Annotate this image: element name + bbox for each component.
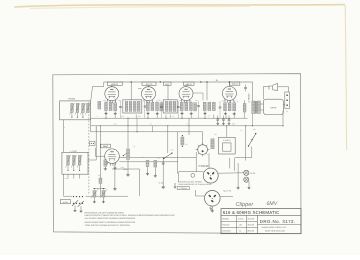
wire pilot 2 return	[248, 182, 250, 187]
oscillator coils	[67, 155, 70, 165]
svg-text:WAIHI, NEW ZEALAND.: WAIHI, NEW ZEALAND.	[265, 230, 285, 232]
wire mid resistor drop	[188, 118, 190, 135]
table text drawn row	[222, 218, 229, 220]
svg-text:VOL.: VOL.	[123, 168, 128, 170]
svg-text:W.SW: W.SW	[63, 201, 68, 203]
wire drops from band to AVC bus	[105, 115, 107, 119]
tone switch	[167, 126, 169, 153]
valve label box V3 6B6G	[183, 82, 194, 85]
wire plug S2 right	[220, 196, 233, 198]
wire osc section riser	[99, 126, 101, 178]
wire aerial box to oscillator box	[63, 120, 65, 153]
volume control potentiometer	[127, 118, 129, 149]
svg-text:616 & 606RG SCHEMATIC: 616 & 606RG SCHEMATIC	[223, 211, 280, 216]
svg-text:10K: 10K	[214, 134, 217, 136]
wire horn to terminal strip	[278, 87, 289, 92]
tiny value labels	[103, 100, 105, 102]
output transformer T3 secondary	[257, 101, 260, 114]
ground diode load	[203, 111, 206, 114]
handwritten Clipper model	[236, 201, 254, 207]
wire rectifier to B branch	[202, 132, 204, 145]
svg-text:6G8-G: 6G8-G	[111, 83, 118, 85]
table column line 2	[245, 215, 247, 233]
grid resistor left of V1	[98, 101, 101, 109]
svg-text:400: 400	[222, 100, 225, 102]
smoothing capacitors	[217, 116, 219, 120]
ground volume control	[126, 173, 130, 176]
resistor group under V2	[146, 102, 149, 110]
wire AVC bus	[91, 117, 248, 119]
svg-text:C.PLUG: C.PLUG	[201, 165, 208, 167]
svg-text:22K: 22K	[138, 116, 141, 118]
wire oscillator box to wave switch	[64, 174, 73, 196]
speaker plug S1	[203, 168, 218, 183]
svg-text:.01: .01	[179, 100, 181, 102]
label B+ on top rail	[216, 79, 219, 81]
svg-text:DRG.No. 3172.: DRG.No. 3172.	[260, 219, 296, 224]
junction dots on HT bus	[100, 125, 101, 126]
wire aerial box right to buses	[90, 101, 92, 132]
wire V4 anode to rail	[228, 82, 230, 87]
svg-text:FS: FS	[286, 111, 288, 113]
svg-text:6MV: 6MV	[267, 201, 278, 207]
svg-text:Clipper: Clipper	[236, 201, 254, 207]
svg-text:600: 600	[98, 175, 101, 177]
svg-text:RADIO-GRAM SWITCH SHOWN IN RAD: RADIO-GRAM SWITCH SHOWN IN RADIO POSITIO…	[85, 222, 135, 224]
coupling cap V4 to speaker	[245, 85, 247, 88]
oscillator coil assembly box L2	[62, 152, 88, 174]
junction dot on B+ rail right	[200, 81, 201, 82]
wire HT bus to condenser units	[226, 126, 228, 138]
label L OSC	[70, 150, 77, 152]
wire aerial box to V1 grid	[91, 82, 104, 101]
svg-text:B+: B+	[216, 79, 219, 81]
wire osc riser extend	[95, 126, 97, 132]
valve label box V1 6G8G	[107, 82, 122, 85]
gang capacitor dashed link	[88, 102, 90, 194]
ground under V2 group	[146, 111, 149, 114]
diode load resistor group	[203, 102, 206, 110]
label VOL	[123, 168, 128, 170]
svg-text:FROM UNDERSIDE OF CHASSIS REAR: FROM UNDERSIDE OF CHASSIS REAR	[178, 183, 211, 185]
table column line 1	[235, 215, 237, 233]
svg-text:ALL OTHER CAPACITIES SHOWN IN: ALL OTHER CAPACITIES SHOWN IN MICROFARAD…	[85, 217, 136, 219]
gang trimmer connector	[90, 141, 95, 145]
svg-text:AKRAD RADIO CORPN. LTD.: AKRAD RADIO CORPN. LTD.	[262, 227, 287, 229]
svg-text:6B6G: 6B6G	[103, 146, 108, 148]
earth symbol above notes	[210, 205, 212, 209]
svg-text:AVC: AVC	[114, 123, 117, 125]
condenser units inner can	[223, 143, 231, 151]
wire B supply branch	[91, 131, 203, 133]
svg-text:C.UNITS: C.UNITS	[223, 139, 231, 141]
pilot lamp 2	[244, 177, 249, 182]
valve V4 output	[222, 86, 236, 100]
svg-text:2M: 2M	[195, 100, 197, 102]
aerial coil bottom taps	[71, 112, 73, 117]
svg-text:SPEAKER SOCKET VIEWED: SPEAKER SOCKET VIEWED	[178, 181, 202, 183]
company name	[262, 227, 287, 229]
notes line 2	[85, 215, 175, 217]
svg-text:RESISTANCE VALUES SHOWN IN OHM: RESISTANCE VALUES SHOWN IN OHMS.	[85, 212, 125, 214]
svg-text:6B6-G: 6B6-G	[186, 83, 192, 85]
table column line 3	[257, 215, 259, 233]
wire HT bus	[91, 125, 283, 127]
wire switch feed	[245, 126, 247, 161]
valve V2 IF amplifier	[142, 87, 156, 101]
valve V5 first audio	[105, 149, 120, 164]
wire rectifier heater drop	[208, 153, 210, 168]
valve V1 converter	[105, 87, 119, 101]
svg-text:R.H.S.: R.H.S.	[238, 218, 244, 220]
wire mid junction to socket loop	[177, 132, 179, 174]
svg-text:6V6-G: 6V6-G	[232, 83, 238, 85]
output transformer T3 primary	[252, 101, 255, 114]
svg-text:TRACED: TRACED	[222, 224, 229, 226]
IF transformer T2 windings	[165, 101, 168, 111]
title block outline	[221, 209, 301, 234]
drg number cell divider	[258, 223, 302, 225]
notes line 3	[85, 217, 136, 219]
title text	[223, 211, 280, 216]
svg-text:J.W.: J.W.	[239, 224, 243, 226]
label chassis plug	[201, 165, 208, 167]
IF transformer T2 box	[163, 100, 177, 113]
valve label box V5 6B6G	[101, 144, 111, 148]
label TRIMS	[68, 98, 75, 100]
bypass capacitor C under V2	[144, 105, 147, 107]
ground V5 cathode	[104, 167, 107, 170]
loudspeaker body	[263, 99, 283, 114]
wire V5 plate to right	[119, 157, 196, 159]
notes line 1	[85, 212, 125, 214]
label pilot lamp type	[223, 190, 231, 192]
wire transformer bottom to HT bus	[252, 114, 254, 126]
svg-text:.1: .1	[145, 100, 146, 102]
mains switch on volume	[249, 134, 256, 146]
scanned paper top edge	[14, 5, 345, 7]
svg-text:CHECKED: CHECKED	[222, 230, 231, 232]
svg-text:6U7-G: 6U7-G	[146, 83, 153, 85]
svg-text:.01: .01	[133, 146, 135, 148]
svg-text:.25: .25	[236, 101, 238, 103]
padder trimmer 1	[93, 191, 96, 198]
wire padder top	[93, 188, 106, 190]
label pilot	[250, 172, 255, 174]
svg-text:50K: 50K	[158, 100, 161, 102]
svg-text:5Y3: 5Y3	[185, 144, 188, 146]
svg-text:S1: S1	[240, 130, 242, 132]
ground padder 2	[102, 197, 104, 200]
ground under V1 group	[104, 111, 107, 114]
screen resistor mid	[181, 137, 184, 145]
wire trans drop 2	[234, 158, 236, 171]
svg-text:.1: .1	[96, 116, 97, 118]
wire speaker plug leads	[283, 104, 284, 106]
label box AVC	[163, 82, 171, 85]
svg-text:1M: 1M	[208, 115, 210, 117]
wire B+ rail	[104, 81, 253, 83]
padder trimmer 2	[102, 191, 105, 198]
svg-text:SW: SW	[253, 129, 256, 131]
fuse bead	[191, 174, 195, 178]
dropper resistor right	[211, 139, 214, 149]
valve label box V2 6U7G	[142, 82, 156, 85]
audio RC leg 1	[147, 160, 149, 172]
label tone	[159, 182, 163, 184]
scanned paper right edge	[345, 5, 346, 150]
valve label box V4 6V6G	[230, 82, 240, 85]
table text checked row	[222, 230, 231, 232]
wire bus interconnect b	[152, 126, 154, 132]
table text traced row	[222, 224, 229, 226]
wire V3 diode to load	[193, 93, 203, 101]
label on-off switch	[198, 165, 209, 167]
wire plug S2 left	[196, 190, 205, 196]
svg-text:24-3-49: 24-3-49	[248, 218, 255, 220]
drg number text	[260, 219, 296, 224]
wire tracking to heater line	[99, 183, 101, 196]
svg-text:.05: .05	[172, 116, 174, 118]
ground wave switch 2	[80, 206, 82, 209]
wire rectifier to mains loop	[195, 152, 197, 172]
svg-text:B+: B+	[150, 123, 152, 125]
svg-text:TONE SWITCH SHOWN IN FIDELITY: TONE SWITCH SHOWN IN FIDELITY POSITION	[85, 224, 130, 226]
oscillator box bottom drops	[67, 174, 69, 178]
wire B+ drop to output transformer	[252, 82, 254, 101]
svg-text:TRIMS: TRIMS	[68, 98, 75, 100]
audio RC leg 2	[154, 160, 156, 174]
drawing border frame	[53, 74, 301, 234]
svg-text:8MF: 8MF	[232, 123, 235, 125]
label output trans vertical	[248, 93, 250, 102]
wire heater line bottom	[86, 195, 128, 197]
ground V5 shield	[113, 166, 116, 169]
speaker terminal strip	[285, 92, 290, 108]
wire bus interconnect a	[136, 118, 138, 132]
label wave switch box	[60, 200, 70, 204]
wire V2 top to IFT1	[138, 88, 142, 90]
wire B+ drop to detector load	[206, 82, 208, 100]
svg-text:.02: .02	[142, 157, 144, 159]
oscillator coil taps	[67, 165, 69, 171]
volume wiper arrow	[123, 153, 126, 155]
svg-text:OSC: OSC	[65, 178, 68, 180]
svg-text:P.TRANS: P.TRANS	[179, 188, 187, 190]
rectifier valve V6	[198, 145, 208, 155]
wire transformer to speaker	[260, 103, 263, 105]
table row line 2	[221, 221, 258, 223]
condenser units box	[218, 137, 235, 154]
svg-text:No.47 PL.: No.47 PL.	[223, 190, 231, 192]
resistor group under V1	[105, 102, 108, 110]
ground under V3 group	[180, 111, 183, 114]
wire horn to speaker	[263, 87, 269, 100]
choke beside output transformer	[243, 104, 246, 113]
title row divider	[221, 214, 301, 216]
note speaker socket viewed	[178, 181, 202, 183]
cathode components under V4	[224, 103, 227, 111]
wire pilot return	[237, 163, 239, 186]
svg-text:30-3-49: 30-3-49	[248, 224, 255, 226]
cathode resistor V5	[104, 160, 107, 166]
wire plug to pilot lamps	[218, 172, 243, 174]
junction dot on B+ rail	[160, 81, 161, 82]
ground under V4	[224, 112, 227, 115]
ground wave switch 1	[74, 205, 76, 208]
svg-text:SPKR: SPKR	[270, 107, 276, 109]
wire oscillator grid to V1	[88, 126, 96, 160]
osc tracking resistor	[99, 178, 102, 183]
wire switch to socket	[235, 147, 252, 158]
junction dots on AVC bus	[105, 118, 106, 119]
notes line 4	[85, 222, 135, 224]
svg-text:T.SW: T.SW	[170, 149, 174, 151]
valve V3 detector-avc	[179, 87, 193, 101]
bus labels extra	[114, 123, 117, 125]
wire V5 to output grid	[114, 163, 116, 186]
svg-text:AVC: AVC	[121, 116, 124, 118]
IF transformer T1 box	[123, 100, 142, 113]
svg-text:C.16: C.16	[159, 182, 163, 184]
wire label box to V1 grid	[111, 85, 113, 87]
svg-text:250K: 250K	[118, 100, 122, 102]
wire trans drop 1	[229, 158, 231, 169]
wire mains loop to plug	[179, 172, 204, 182]
svg-text:.05: .05	[103, 100, 105, 102]
label power trans box	[177, 187, 189, 190]
notes line 5	[85, 224, 130, 226]
svg-text:DRAWN: DRAWN	[222, 218, 229, 220]
svg-text:.5: .5	[186, 123, 187, 125]
wire B+ drop to IFT1	[130, 82, 132, 100]
svg-text:1M: 1M	[158, 157, 160, 159]
svg-text:AVC: AVC	[165, 83, 169, 85]
small caps along band	[119, 105, 122, 107]
wire V5 aux to right	[119, 161, 177, 163]
aerial coils with trimmer arrows	[71, 103, 74, 112]
pilot lamp 1	[244, 170, 249, 175]
mains earth arrow	[174, 183, 176, 188]
IF transformer T1 windings	[125, 101, 128, 111]
thin gap verticals to AVC bus	[120, 101, 122, 118]
tone capacitor leg	[162, 157, 164, 185]
coupling network wires	[112, 169, 140, 196]
svg-text:20-4-49: 20-4-49	[248, 230, 255, 232]
resistor group under V3	[180, 102, 183, 110]
aerial coil assembly box L1	[60, 101, 91, 120]
svg-text:.1: .1	[108, 185, 109, 187]
wire label box to V2	[148, 85, 150, 87]
output transformer T3 core	[255, 101, 257, 114]
svg-text:A: A	[64, 127, 65, 129]
ground plug S2	[211, 206, 213, 209]
svg-text:T.L.: T.L.	[239, 230, 242, 232]
thin pin wires from valves into band	[105, 100, 107, 102]
svg-text:PILOT: PILOT	[250, 172, 255, 174]
svg-text:O.TRANS: O.TRANS	[248, 93, 250, 102]
power plug S2	[205, 191, 221, 207]
wire B+ drop to IFT2	[167, 85, 169, 100]
svg-text:UNLESS NOTED. CAPACITIES LESS: UNLESS NOTED. CAPACITIES LESS THAN 1 SHO…	[85, 215, 175, 217]
table row line 3	[221, 227, 258, 229]
svg-text:250K: 250K	[121, 167, 125, 169]
ground below V5	[113, 187, 117, 190]
ground padder 1	[93, 197, 95, 200]
wire label box to V3	[185, 85, 187, 87]
speaker horn	[269, 86, 273, 90]
wire V5 grid left	[96, 148, 105, 156]
wave switch contacts	[73, 196, 74, 197]
